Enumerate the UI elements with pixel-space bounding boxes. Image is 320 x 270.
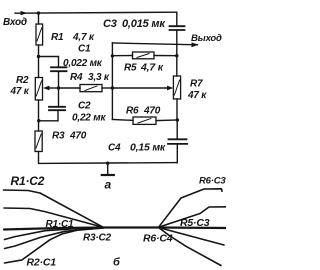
curve L5 R2-C1 (5, 228, 104, 263)
svg-text:R1·C1: R1·C1 (46, 219, 75, 230)
svg-text:R3·C2: R3·C2 (83, 233, 112, 244)
svg-text:3,3 к: 3,3 к (88, 72, 110, 83)
wire top rail (15, 12, 177, 13)
wire R1 bottom (38, 45, 40, 57)
svg-text:0,022 мк: 0,022 мк (63, 58, 103, 69)
node B (37, 55, 40, 58)
wire R7 wiper arrow (112, 87, 168, 89)
node R6-column (176, 118, 179, 121)
wire node B to C1 (39, 57, 59, 68)
wire bus vertical (111, 43, 113, 120)
svg-text:Выход: Выход (191, 33, 222, 44)
wire output line (112, 43, 197, 45)
wire C3 bottom down through output crossing to R7 (176, 30, 178, 76)
svg-text:R6·C3: R6·C3 (199, 176, 226, 187)
svg-text:а: а (105, 178, 112, 192)
svg-text:R6: R6 (126, 106, 139, 117)
wire R2 top (38, 57, 40, 78)
wire R6 to column (156, 119, 177, 122)
node wiper (57, 86, 60, 89)
svg-text:0,15 мк: 0,15 мк (130, 142, 166, 154)
node R2-R3 (37, 119, 40, 122)
svg-text:R5·C3: R5·C3 (180, 217, 210, 229)
svg-text:R2·C1: R2·C1 (27, 257, 57, 269)
wire input arrow (20, 12, 28, 14)
svg-text:С2: С2 (78, 101, 91, 112)
wire R2 bottom (38, 100, 40, 131)
wire wiper to R4 (59, 87, 81, 89)
node R5-column (175, 54, 178, 57)
svg-text:R6·C4: R6·C4 (143, 233, 173, 245)
curve D2 (159, 228, 222, 266)
wire R2 wiper arrow (48, 87, 59, 89)
curve U2 R5-C3 (159, 207, 227, 228)
wire R3 bottom to rail (39, 152, 178, 164)
svg-text:Вход: Вход (3, 17, 27, 28)
wire C1 bottom to wiper node (58, 71, 60, 88)
svg-text:С3: С3 (103, 18, 117, 30)
svg-text:0,015 мк: 0,015 мк (122, 18, 166, 30)
wire C2 bottom to R2/R3 node (39, 110, 58, 121)
wire R1 top (38, 13, 40, 24)
wire R6 node to C4 (176, 120, 178, 139)
svg-text:С4: С4 (108, 143, 121, 154)
node ground junction (106, 162, 109, 165)
resistor R4 (80, 85, 102, 92)
node bus-wiper7 (111, 86, 114, 89)
svg-text:R5: R5 (124, 63, 137, 74)
curve D1 (159, 228, 225, 246)
wire C4 bottom to rail (176, 144, 178, 163)
svg-text:R2: R2 (16, 75, 29, 86)
resistor R6 (133, 117, 156, 124)
curve L3 (5, 228, 104, 240)
svg-text:R3: R3 (52, 131, 65, 142)
wire R7 bottom (176, 99, 178, 120)
resistor R3 (35, 131, 42, 152)
resistor R1 (36, 24, 43, 45)
wire top rail corner down to C3 (176, 12, 178, 26)
svg-text:0,22 мк: 0,22 мк (72, 113, 106, 124)
curve L2 R1-C1 (4, 208, 104, 227)
svg-text:47 к: 47 к (10, 86, 30, 97)
wire R5 to column (154, 55, 177, 57)
wire R4 to bus (102, 87, 112, 89)
node input junction (37, 11, 40, 14)
svg-text:4,7 к: 4,7 к (72, 32, 95, 43)
node bus-R5 (111, 54, 114, 57)
resistor R7 (173, 76, 180, 99)
svg-text:470: 470 (143, 106, 161, 117)
wire bus to R6 (112, 119, 133, 120)
capacitor C3 (170, 25, 185, 27)
curve center line (4, 228, 226, 230)
svg-text:R1·C2: R1·C2 (11, 174, 45, 188)
capacitor C2 (49, 106, 65, 108)
capacitor C4 (169, 138, 187, 140)
svg-text:R7: R7 (190, 79, 203, 90)
svg-text:470: 470 (69, 131, 87, 142)
capacitor C1 (51, 66, 67, 68)
svg-text:С1: С1 (78, 44, 91, 55)
resistor R5 (133, 52, 155, 59)
wire wiper node to C2 (58, 88, 60, 107)
svg-text:R4: R4 (70, 72, 83, 83)
curve U1 R6-C3 (159, 189, 223, 228)
curve L4 (5, 228, 104, 249)
wire bus to R5 (112, 55, 132, 57)
svg-text:R1: R1 (51, 32, 64, 43)
resistor R2 (35, 78, 42, 101)
svg-text:4,7 к: 4,7 к (140, 62, 164, 74)
ground (107, 163, 109, 174)
svg-text:47 к: 47 к (187, 90, 207, 101)
curve L1 R1-C2 (4, 190, 104, 227)
